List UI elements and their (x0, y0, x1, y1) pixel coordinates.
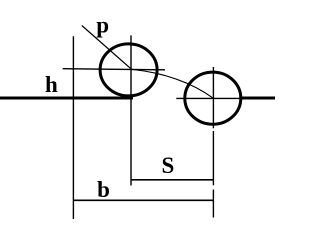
wire: left vertical extension line (72, 36, 74, 219)
wire: thick surface line right (241, 97, 275, 100)
wire: S dimension line (131, 179, 213, 181)
wire: curve from circle 1 center to circle 2 center (131, 69, 213, 98)
node A: roller circle 1 (100, 44, 157, 96)
wire: circle 2 vertical centerline middle segment (212, 131, 214, 185)
svg-text:S: S (162, 153, 175, 178)
svg-text:p: p (96, 12, 109, 37)
wire: circle 1 horizontal centerline (63, 69, 165, 70)
wire: circle 2 horizontal centerline (176, 97, 243, 99)
wire: thick ground surface line left (0, 97, 133, 100)
node B: roller circle 2 (185, 72, 241, 124)
svg-text:h: h (45, 72, 58, 97)
svg-text:b: b (97, 177, 110, 202)
wire: circle 2 vertical centerline lower segment (212, 190, 214, 218)
wire: circle 2 vertical centerline upper segment (212, 67, 214, 128)
wire: b dimension line (73, 199, 213, 201)
wire: pitch diagonal line to circle 1 center (82, 26, 131, 69)
wire: circle 1 vertical centerline (130, 35, 132, 185)
